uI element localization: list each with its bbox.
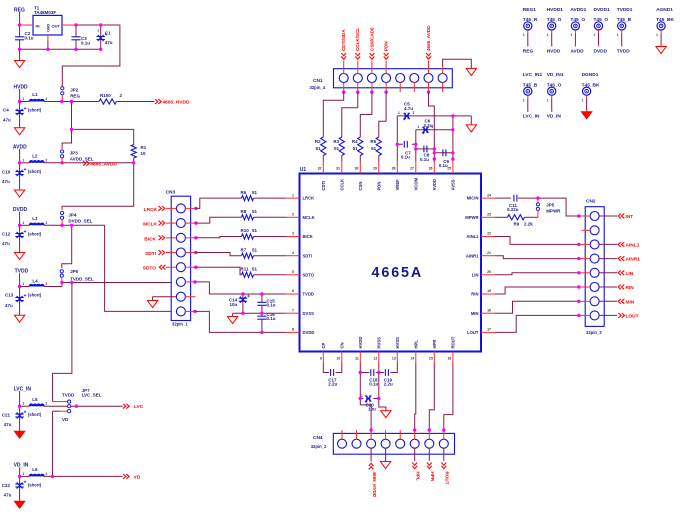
svg-text:VCOM: VCOM bbox=[414, 177, 419, 190]
svg-text:REG: REG bbox=[523, 48, 534, 54]
wire CN3 pin5 to resistor bbox=[185, 266, 241, 275]
svg-text:29: 29 bbox=[373, 166, 377, 170]
pin 29 PDN (top) bbox=[373, 162, 381, 191]
resistor R6 51 bbox=[241, 190, 286, 201]
svg-text:32pin_2: 32pin_2 bbox=[311, 444, 327, 449]
svg-text:LRCK: LRCK bbox=[303, 196, 315, 201]
svg-text:1: 1 bbox=[523, 33, 525, 37]
svg-text:14: 14 bbox=[410, 357, 414, 361]
wire HVDD row bbox=[20, 101, 155, 103]
wire JP7 VD to VD row bbox=[53, 411, 61, 476]
svg-text:(short): (short) bbox=[28, 412, 42, 417]
pin 30 CSN (top) bbox=[355, 162, 363, 191]
net label HPR bbox=[427, 448, 435, 482]
capacitor C8 0.1u bbox=[416, 146, 435, 162]
net label AINR1 bbox=[599, 256, 640, 262]
svg-text:20: 20 bbox=[487, 270, 491, 274]
net label PDN bbox=[384, 41, 389, 60]
svg-text:PDN: PDN bbox=[384, 41, 389, 51]
pin 27 VCOM (top) bbox=[410, 162, 418, 191]
capacitor C1 47u bbox=[97, 25, 113, 49]
resistor R4 51 bbox=[352, 137, 363, 162]
ground below C4 bbox=[14, 128, 24, 135]
wire CN1 pin1 to R2 bbox=[323, 92, 343, 137]
net label LOUT bbox=[599, 313, 639, 319]
svg-text:CSN/CAD0: CSN/CAD0 bbox=[369, 27, 374, 51]
pin 22 AINL1 (right) bbox=[466, 232, 495, 239]
svg-text:4665_HVDD: 4665_HVDD bbox=[372, 472, 377, 498]
svg-text:0.22u: 0.22u bbox=[507, 207, 519, 212]
svg-text:LIN: LIN bbox=[626, 271, 634, 277]
svg-text:VREF: VREF bbox=[395, 179, 400, 191]
capacitor C11 0.22u bbox=[495, 195, 538, 213]
ground below C10 bbox=[14, 190, 24, 197]
svg-text:7: 7 bbox=[292, 308, 294, 312]
wire CN1 pin3 to R4 bbox=[360, 92, 372, 137]
svg-text:JP5: JP5 bbox=[546, 202, 555, 207]
svg-text:IN: IN bbox=[36, 23, 40, 28]
inductor L1 (short) bbox=[23, 92, 48, 113]
CN2 pin2 stub bbox=[582, 229, 591, 231]
net label INT bbox=[599, 214, 633, 220]
CN3 left pin stubs bbox=[166, 208, 177, 267]
wire HPL to CN4 bbox=[415, 363, 416, 430]
resistor R1 10 bbox=[131, 145, 147, 159]
svg-text:4665_AVDD: 4665_AVDD bbox=[90, 161, 117, 167]
svg-text:DGND1: DGND1 bbox=[582, 72, 599, 78]
capacitor C4 47u bbox=[3, 102, 26, 128]
svg-text:LRCK: LRCK bbox=[144, 207, 158, 213]
ground right of CN1 bbox=[466, 68, 476, 75]
svg-text:47u: 47u bbox=[2, 179, 10, 184]
node junctions CN1 bottom bbox=[342, 90, 430, 93]
svg-text:0.1u: 0.1u bbox=[25, 35, 34, 40]
svg-text:OUT: OUT bbox=[52, 23, 61, 28]
svg-text:31: 31 bbox=[336, 166, 340, 170]
svg-text:JP2: JP2 bbox=[70, 88, 79, 93]
net label AINL1 bbox=[599, 242, 640, 248]
svg-text:VD: VD bbox=[62, 417, 69, 422]
svg-text:DVDD: DVDD bbox=[303, 330, 315, 335]
svg-text:11: 11 bbox=[355, 357, 359, 361]
wire CN3 pin8 to chip DVDD bbox=[185, 310, 285, 333]
svg-text:2: 2 bbox=[46, 402, 48, 406]
resistor R11 51 bbox=[241, 267, 286, 278]
svg-text:TA48M03F: TA48M03F bbox=[34, 10, 56, 15]
node AVDD net label bbox=[13, 145, 27, 163]
node VD_IN net label bbox=[14, 463, 29, 477]
svg-text:1: 1 bbox=[617, 33, 619, 37]
resistor R10 51 bbox=[241, 228, 286, 239]
pin 15 HPR (bottom) bbox=[429, 340, 437, 363]
svg-text:1: 1 bbox=[547, 33, 549, 37]
wire CN1 pin8 to ground bbox=[443, 59, 472, 73]
wire regulator ground bus bbox=[20, 41, 101, 49]
pin 3 BICK (left) bbox=[286, 232, 313, 239]
capacitor C10 47u bbox=[2, 163, 26, 190]
svg-text:GND: GND bbox=[47, 24, 51, 32]
terminal HVDD1 bbox=[547, 7, 564, 54]
resistor R8 51 bbox=[241, 209, 286, 220]
svg-text:AVDD_SEL: AVDD_SEL bbox=[70, 157, 94, 162]
wire HPR to CN4 bbox=[429, 363, 434, 430]
ground below C12 bbox=[14, 253, 24, 260]
svg-text:2: 2 bbox=[46, 472, 48, 476]
capacitor C21 47u bbox=[2, 406, 26, 431]
svg-text:LOUT: LOUT bbox=[467, 330, 479, 335]
pin 18 MIN (right) bbox=[471, 308, 495, 315]
svg-text:R2: R2 bbox=[315, 139, 321, 144]
svg-text:DVDD_SEL: DVDD_SEL bbox=[68, 218, 92, 223]
svg-text:4: 4 bbox=[292, 251, 294, 255]
svg-text:10: 10 bbox=[336, 357, 340, 361]
svg-text:L5: L5 bbox=[32, 397, 38, 402]
svg-text:1: 1 bbox=[292, 193, 294, 197]
svg-text:R4: R4 bbox=[352, 139, 358, 144]
svg-text:0.1u: 0.1u bbox=[401, 155, 410, 160]
svg-text:47u: 47u bbox=[5, 303, 13, 308]
svg-text:10u: 10u bbox=[230, 302, 238, 307]
svg-text:TVDD: TVDD bbox=[617, 48, 631, 54]
svg-text:6: 6 bbox=[292, 289, 294, 293]
capacitor C6 2.2u bbox=[416, 119, 453, 135]
svg-text:4665_HVDD: 4665_HVDD bbox=[163, 100, 190, 106]
svg-text:L6: L6 bbox=[32, 467, 38, 472]
svg-text:27: 27 bbox=[410, 166, 414, 170]
svg-text:30: 30 bbox=[355, 166, 359, 170]
capacitor C19 2.2u bbox=[379, 363, 398, 387]
svg-text:CN4: CN4 bbox=[313, 435, 323, 441]
inductor L2 (short) bbox=[23, 153, 48, 174]
svg-text:C12: C12 bbox=[2, 231, 11, 236]
svg-text:JP6: JP6 bbox=[70, 269, 79, 274]
jumper JP7 LVC_SEL bbox=[53, 388, 102, 422]
svg-text:AVSS: AVSS bbox=[451, 179, 456, 190]
svg-text:LVC: LVC bbox=[134, 404, 144, 410]
CN1 bottom stubs bbox=[344, 82, 443, 92]
svg-text:22: 22 bbox=[487, 232, 491, 236]
svg-text:0.1u: 0.1u bbox=[267, 303, 276, 308]
svg-text:2: 2 bbox=[413, 111, 415, 115]
net label 4665_HVDD (CN4) bbox=[369, 448, 377, 498]
node junctions HVDD net bbox=[359, 371, 381, 400]
svg-text:(short): (short) bbox=[28, 169, 42, 174]
svg-text:16: 16 bbox=[447, 357, 451, 361]
capacitor C15 0.1u bbox=[257, 294, 275, 313]
terminal VD_IN1 bbox=[547, 72, 564, 119]
node junctions DVDD row bbox=[18, 224, 74, 227]
svg-text:MCLK: MCLK bbox=[143, 222, 157, 228]
wire CN1 pin2 to R3 bbox=[342, 92, 358, 137]
svg-text:VD_IN: VD_IN bbox=[547, 114, 562, 120]
svg-text:AINR1: AINR1 bbox=[626, 257, 641, 263]
net label 4665_AVDD (CN1) bbox=[426, 25, 431, 59]
svg-text:LVC_IN1: LVC_IN1 bbox=[523, 72, 543, 78]
pin 10 CN (bottom) bbox=[336, 342, 344, 363]
svg-text:2.2u: 2.2u bbox=[384, 382, 393, 387]
svg-text:CDTI: CDTI bbox=[321, 181, 326, 191]
jumper JP4 DVDD_SEL bbox=[61, 211, 93, 225]
jumper JP6 TVDD_SEL bbox=[60, 269, 94, 283]
net label MIN bbox=[599, 299, 635, 305]
svg-text:HPR: HPR bbox=[432, 340, 437, 349]
jumper JP2 REG bbox=[61, 87, 81, 102]
resistor R9 2.2k bbox=[495, 215, 538, 227]
svg-text:4665A: 4665A bbox=[372, 265, 424, 281]
svg-text:HVDD: HVDD bbox=[547, 48, 561, 54]
svg-text:C4: C4 bbox=[3, 107, 9, 112]
svg-text:1: 1 bbox=[23, 282, 25, 286]
svg-text:CN3: CN3 bbox=[166, 190, 176, 196]
pin 31 CCLK (top) bbox=[336, 162, 344, 191]
svg-text:INT: INT bbox=[626, 214, 634, 220]
svg-text:L2: L2 bbox=[32, 153, 38, 158]
terminal TVDD1 bbox=[617, 7, 633, 54]
svg-text:MPWR: MPWR bbox=[546, 208, 561, 213]
svg-text:47u: 47u bbox=[4, 493, 12, 498]
ground below HVSS bbox=[381, 411, 391, 418]
capacitor C12 47u bbox=[2, 225, 26, 252]
pin 8 DVDD (left) bbox=[286, 328, 315, 335]
ground below C21 bbox=[14, 431, 24, 438]
pin 6 TVDD (left) bbox=[286, 289, 314, 296]
svg-text:MCLK: MCLK bbox=[303, 215, 315, 220]
svg-text:CN1: CN1 bbox=[313, 78, 323, 84]
net label CDTI/SDA bbox=[341, 29, 346, 60]
svg-text:51: 51 bbox=[353, 146, 359, 151]
svg-text:TVDD_SEL: TVDD_SEL bbox=[70, 277, 94, 282]
svg-text:HVDD: HVDD bbox=[14, 84, 29, 90]
connector CN4 32pin_2 bbox=[311, 433, 455, 454]
svg-text:HVDD1: HVDD1 bbox=[547, 7, 564, 13]
net label 4665_AVDD bbox=[83, 161, 117, 167]
wire HVDD row to R1 and JP3 bbox=[62, 102, 134, 149]
pin 21 AINR1 (right) bbox=[466, 251, 495, 258]
capacitor C5 4.7u bbox=[397, 101, 471, 120]
svg-text:1: 1 bbox=[23, 158, 25, 162]
resistor R7 51 bbox=[241, 247, 286, 258]
svg-text:51: 51 bbox=[371, 146, 377, 151]
svg-text:0.1u: 0.1u bbox=[439, 163, 448, 168]
svg-text:21: 21 bbox=[487, 251, 491, 255]
svg-text:1: 1 bbox=[523, 98, 525, 102]
capacitor C13 47u bbox=[5, 287, 26, 316]
svg-text:AVDD1: AVDD1 bbox=[570, 7, 586, 13]
svg-text:HPL: HPL bbox=[416, 472, 421, 481]
net label MCLK bbox=[143, 221, 165, 228]
svg-text:32pin_1: 32pin_1 bbox=[172, 322, 188, 327]
svg-text:R5: R5 bbox=[370, 139, 376, 144]
pin 16 ROUT (bottom) bbox=[447, 336, 455, 363]
ground below C13 bbox=[14, 315, 24, 322]
svg-text:47u: 47u bbox=[2, 241, 10, 246]
node REG net label bbox=[14, 8, 25, 26]
svg-text:2: 2 bbox=[292, 213, 294, 217]
svg-text:1: 1 bbox=[398, 111, 400, 115]
svg-text:51: 51 bbox=[334, 146, 340, 151]
svg-text:C21: C21 bbox=[2, 412, 11, 417]
svg-text:1: 1 bbox=[570, 33, 572, 37]
capacitor C14 10u bbox=[229, 294, 250, 313]
CN4 top stubs bbox=[342, 430, 444, 439]
pin 1 LRCK (left) bbox=[286, 193, 315, 200]
svg-text:47u: 47u bbox=[3, 117, 11, 122]
wire CN1 pin4 to R5 bbox=[379, 92, 386, 137]
capacitor C2 0.1u bbox=[15, 25, 34, 49]
svg-text:C10: C10 bbox=[2, 170, 11, 175]
svg-text:(short): (short) bbox=[28, 293, 42, 298]
svg-text:LIN: LIN bbox=[472, 272, 479, 277]
wire DVDD feed to JP6 bbox=[62, 225, 72, 268]
wire AVSS column bbox=[452, 116, 454, 162]
wire chip pin 19 to CN2 bbox=[495, 287, 579, 294]
svg-text:LOUT: LOUT bbox=[626, 313, 639, 319]
svg-text:AINR1: AINR1 bbox=[466, 253, 479, 258]
svg-text:CN2: CN2 bbox=[586, 199, 596, 205]
net label RIN bbox=[599, 285, 634, 291]
svg-text:10: 10 bbox=[141, 151, 147, 156]
ground below DVSS row bbox=[227, 313, 237, 323]
resistor R2 51 bbox=[315, 137, 326, 162]
svg-text:SDTO: SDTO bbox=[143, 266, 157, 272]
svg-text:PDN: PDN bbox=[377, 182, 382, 191]
svg-text:23: 23 bbox=[487, 213, 491, 217]
pin 12 HVSS (bottom) bbox=[373, 337, 381, 363]
pin 13 HVSS (bottom) bbox=[392, 337, 400, 363]
svg-text:SDTI: SDTI bbox=[303, 253, 313, 258]
net label HPL bbox=[412, 448, 420, 481]
svg-text:RIN: RIN bbox=[471, 292, 478, 297]
inductor L6 (short) bbox=[23, 467, 48, 487]
svg-text:8: 8 bbox=[292, 328, 294, 332]
wire chip pin 20 to CN2 bbox=[495, 273, 579, 275]
svg-text:24: 24 bbox=[487, 193, 491, 197]
svg-text:3: 3 bbox=[292, 232, 294, 236]
wire HVDD column CN4 bbox=[360, 363, 371, 430]
node junctions regulator bbox=[18, 23, 103, 51]
svg-text:DVDD: DVDD bbox=[594, 48, 608, 54]
svg-text:4.7u: 4.7u bbox=[404, 106, 413, 111]
wire CN3 pin4 to resistor bbox=[185, 251, 241, 256]
svg-text:0.1u: 0.1u bbox=[420, 157, 429, 162]
node LVC_IN net label bbox=[14, 386, 32, 406]
connector CN1 32pin_4 bbox=[310, 69, 453, 90]
svg-text:HPL: HPL bbox=[414, 340, 419, 349]
CN3 pin7 stub bbox=[185, 296, 195, 298]
terminal AGND1 bbox=[656, 7, 675, 54]
capacitor C17 2.2u bbox=[323, 363, 342, 387]
svg-text:SDTI: SDTI bbox=[145, 251, 157, 257]
svg-text:32pin_4: 32pin_4 bbox=[310, 85, 326, 90]
pin 2 MCLK (left) bbox=[286, 213, 315, 220]
resistor R100 2 bbox=[99, 93, 123, 104]
wire LVC output bbox=[71, 405, 123, 408]
svg-text:RIN: RIN bbox=[626, 285, 635, 291]
svg-text:CCLK/SCL: CCLK/SCL bbox=[355, 28, 360, 51]
regulator T1 TA48M03F bbox=[20, 5, 75, 41]
svg-text:25: 25 bbox=[447, 166, 451, 170]
net label LVC bbox=[123, 404, 144, 410]
net label BICK bbox=[144, 235, 164, 242]
capacitor C7 0.1u bbox=[397, 141, 416, 160]
pin 26 AVDD (top) bbox=[429, 162, 437, 191]
net label CSN/CAD0 bbox=[369, 27, 374, 59]
svg-text:0.1u: 0.1u bbox=[81, 40, 90, 45]
svg-text:REG1: REG1 bbox=[523, 7, 536, 13]
svg-text:TVDD1: TVDD1 bbox=[617, 7, 633, 13]
svg-text:R7: R7 bbox=[241, 247, 247, 252]
svg-text:R3: R3 bbox=[333, 139, 339, 144]
svg-text:(short): (short) bbox=[28, 231, 42, 236]
svg-text:0.1u: 0.1u bbox=[267, 316, 276, 321]
wire VD row bbox=[20, 475, 123, 477]
svg-text:5: 5 bbox=[292, 270, 294, 274]
svg-text:1: 1 bbox=[582, 98, 584, 102]
svg-text:VD: VD bbox=[134, 474, 141, 480]
pin 25 AVSS (top) bbox=[447, 162, 455, 191]
svg-text:R9: R9 bbox=[514, 222, 520, 227]
wire AVDD row bbox=[20, 162, 134, 164]
pin 23 MPWR (right) bbox=[465, 213, 495, 220]
svg-text:DVDD1: DVDD1 bbox=[594, 7, 611, 13]
svg-text:R11: R11 bbox=[241, 267, 250, 272]
svg-text:19: 19 bbox=[487, 289, 491, 293]
capacitor C3 0.1u bbox=[71, 25, 90, 49]
net label LRCK bbox=[144, 206, 165, 213]
jumper JP3 AVDD_SEL bbox=[61, 150, 94, 163]
svg-text:HPR: HPR bbox=[430, 472, 435, 482]
resistor R3 51 bbox=[333, 137, 344, 162]
wire CN3 pin6 to chip TVDD bbox=[185, 280, 285, 294]
svg-text:32pin_3: 32pin_3 bbox=[586, 330, 602, 335]
wire CN3 pin2 to resistor bbox=[185, 217, 241, 225]
svg-text:REG: REG bbox=[70, 94, 80, 99]
svg-text:51: 51 bbox=[252, 190, 258, 195]
svg-text:51: 51 bbox=[252, 228, 258, 233]
node DVDD net label bbox=[13, 207, 28, 225]
svg-text:51: 51 bbox=[252, 247, 258, 252]
wire DVDD row bbox=[20, 224, 105, 226]
inductor L5 (short) bbox=[23, 397, 48, 417]
terminal DVDD1 bbox=[594, 7, 611, 54]
svg-text:CDTI/SDA: CDTI/SDA bbox=[341, 29, 346, 51]
svg-text:VD_IN1: VD_IN1 bbox=[547, 72, 564, 78]
svg-text:CN: CN bbox=[340, 342, 345, 348]
pin 32 CDTI (top) bbox=[318, 162, 326, 191]
svg-text:L3: L3 bbox=[32, 216, 38, 221]
svg-text:TVDD: TVDD bbox=[62, 392, 75, 397]
wire T1 OUT to JP2 bbox=[62, 25, 120, 87]
svg-text:CSN: CSN bbox=[358, 182, 363, 191]
capacitor C18 0.1u bbox=[360, 369, 379, 387]
svg-text:51: 51 bbox=[252, 267, 258, 272]
svg-text:28: 28 bbox=[392, 166, 396, 170]
svg-text:51: 51 bbox=[252, 209, 258, 214]
svg-text:(short): (short) bbox=[28, 108, 42, 113]
wire LVC row bbox=[20, 405, 68, 407]
ground below C22 bbox=[14, 501, 24, 508]
svg-text:LVC_SEL: LVC_SEL bbox=[82, 393, 102, 398]
svg-text:R10: R10 bbox=[241, 228, 250, 233]
svg-text:AINL1: AINL1 bbox=[466, 234, 479, 239]
svg-text:L4: L4 bbox=[32, 278, 38, 283]
CN2 left stubs bbox=[577, 214, 590, 317]
svg-text:MPWR: MPWR bbox=[465, 215, 478, 220]
net label CCLK/SCL bbox=[355, 28, 360, 60]
jumper JP5 MPWR bbox=[536, 200, 561, 218]
wire C11 to CN2 INT bbox=[536, 196, 579, 216]
svg-text:1: 1 bbox=[656, 33, 658, 37]
